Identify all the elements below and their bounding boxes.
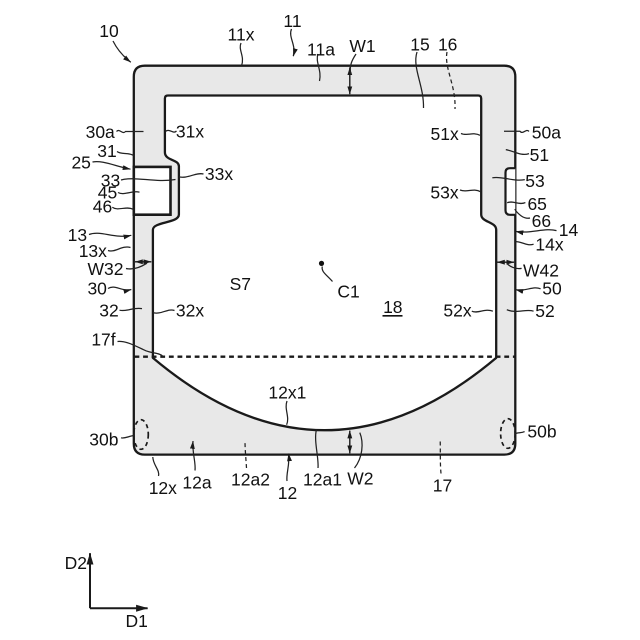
svg-text:12x: 12x — [149, 478, 177, 498]
svg-text:52x: 52x — [443, 301, 471, 321]
svg-text:S7: S7 — [230, 274, 251, 294]
svg-text:D2: D2 — [65, 553, 87, 573]
svg-text:51: 51 — [530, 145, 549, 165]
svg-text:10: 10 — [99, 21, 119, 41]
svg-text:12x1: 12x1 — [268, 383, 306, 403]
svg-text:30a: 30a — [86, 122, 115, 142]
svg-text:12a: 12a — [182, 473, 211, 493]
svg-text:52: 52 — [535, 301, 554, 321]
svg-text:31: 31 — [97, 141, 116, 161]
svg-text:15: 15 — [410, 35, 429, 55]
svg-text:50a: 50a — [532, 123, 561, 143]
svg-text:25: 25 — [71, 153, 90, 173]
svg-text:14x: 14x — [535, 235, 563, 255]
svg-text:D1: D1 — [126, 611, 148, 631]
svg-text:53x: 53x — [430, 183, 458, 203]
svg-text:30b: 30b — [89, 429, 118, 449]
svg-text:50b: 50b — [527, 421, 556, 441]
svg-text:12a2: 12a2 — [231, 470, 270, 490]
svg-text:16: 16 — [438, 35, 457, 55]
svg-text:51x: 51x — [430, 124, 458, 144]
svg-text:12: 12 — [278, 483, 297, 503]
svg-text:46: 46 — [93, 197, 112, 217]
svg-text:33x: 33x — [205, 164, 233, 184]
svg-text:30: 30 — [87, 279, 107, 299]
svg-text:17: 17 — [433, 475, 452, 495]
svg-text:12a1: 12a1 — [303, 470, 342, 490]
svg-text:31x: 31x — [176, 121, 204, 141]
svg-text:11: 11 — [283, 11, 301, 31]
svg-text:32x: 32x — [176, 301, 204, 321]
svg-text:32: 32 — [99, 301, 118, 321]
svg-text:66: 66 — [532, 211, 551, 231]
svg-text:W32: W32 — [88, 259, 124, 279]
svg-text:13x: 13x — [79, 241, 107, 261]
svg-text:11x: 11x — [228, 25, 255, 45]
svg-text:17f: 17f — [91, 329, 115, 349]
svg-text:18: 18 — [383, 297, 402, 317]
svg-text:C1: C1 — [337, 282, 359, 302]
svg-text:W42: W42 — [523, 261, 559, 281]
svg-text:W2: W2 — [347, 469, 373, 489]
svg-text:W1: W1 — [349, 36, 375, 56]
svg-text:11a: 11a — [307, 40, 335, 60]
svg-text:53: 53 — [525, 171, 544, 191]
svg-text:50: 50 — [542, 279, 562, 299]
